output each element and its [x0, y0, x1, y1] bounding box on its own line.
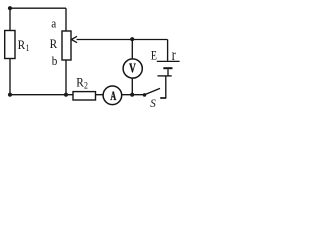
svg-text:1: 1 [26, 43, 30, 54]
svg-text:S: S [150, 98, 156, 110]
svg-text:2: 2 [84, 80, 88, 91]
svg-text:b: b [52, 53, 58, 68]
svg-text:V: V [129, 60, 136, 77]
svg-text:R: R [18, 37, 26, 52]
svg-text:r: r [172, 47, 176, 65]
svg-text:R: R [50, 36, 58, 51]
svg-text:A: A [110, 90, 116, 103]
svg-text:a: a [51, 16, 57, 31]
svg-text:E: E [151, 49, 157, 63]
